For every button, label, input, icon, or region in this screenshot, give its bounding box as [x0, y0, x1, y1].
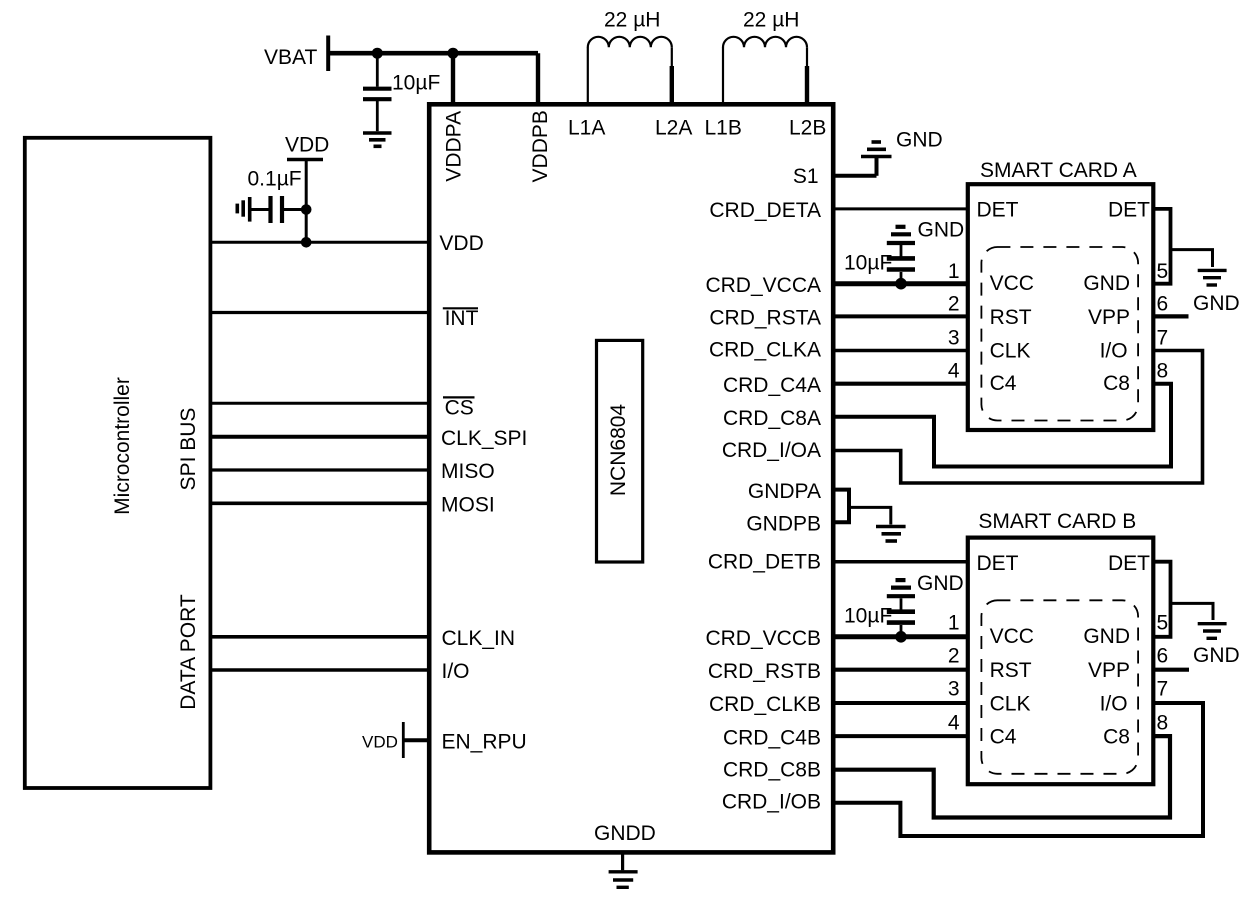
- svg-text:6: 6: [1157, 292, 1169, 315]
- svg-text:CRD_C4B: CRD_C4B: [723, 726, 821, 749]
- svg-text:C8: C8: [1103, 726, 1130, 749]
- svg-text:GND: GND: [1193, 292, 1240, 315]
- svg-text:CRD_VCCB: CRD_VCCB: [705, 627, 821, 650]
- svg-text:GND: GND: [917, 572, 964, 595]
- svg-text:CRD_CLKB: CRD_CLKB: [709, 693, 821, 716]
- svg-text:GND: GND: [1193, 644, 1240, 667]
- svg-text:SPI BUS: SPI BUS: [177, 408, 200, 491]
- svg-text:CLK_SPI: CLK_SPI: [441, 427, 527, 450]
- svg-text:7: 7: [1157, 327, 1169, 350]
- svg-text:VPP: VPP: [1088, 306, 1130, 329]
- svg-text:GND: GND: [1083, 272, 1130, 295]
- svg-text:MISO: MISO: [441, 460, 495, 483]
- svg-text:CRD_C8B: CRD_C8B: [723, 759, 821, 782]
- svg-text:8: 8: [1157, 360, 1169, 383]
- svg-text:EN_RPU: EN_RPU: [442, 730, 527, 753]
- svg-text:L1B: L1B: [705, 117, 742, 140]
- svg-text:C4: C4: [990, 372, 1017, 395]
- svg-text:GND: GND: [1083, 625, 1130, 648]
- svg-text:L2A: L2A: [655, 117, 692, 140]
- svg-text:7: 7: [1157, 678, 1169, 701]
- svg-text:CS: CS: [445, 397, 474, 420]
- svg-text:CLK_IN: CLK_IN: [442, 627, 516, 650]
- svg-text:5: 5: [1157, 260, 1169, 283]
- svg-text:CRD_DETB: CRD_DETB: [708, 551, 821, 574]
- svg-text:CRD_C4A: CRD_C4A: [723, 374, 821, 397]
- svg-text:I/O: I/O: [1100, 339, 1128, 362]
- svg-text:2: 2: [948, 292, 960, 315]
- svg-text:10µF: 10µF: [392, 72, 440, 95]
- svg-text:1: 1: [948, 612, 960, 635]
- svg-text:10µF: 10µF: [844, 251, 892, 274]
- svg-text:GND: GND: [896, 128, 943, 151]
- svg-text:INT: INT: [445, 307, 479, 330]
- svg-text:DATA PORT: DATA PORT: [177, 594, 200, 710]
- svg-text:C4: C4: [990, 726, 1017, 749]
- svg-text:L1A: L1A: [568, 117, 605, 140]
- svg-text:DET: DET: [1108, 552, 1150, 575]
- svg-text:GND: GND: [918, 219, 965, 242]
- svg-text:VCC: VCC: [990, 625, 1034, 648]
- svg-text:VDDPA: VDDPA: [442, 111, 465, 182]
- svg-text:0.1µF: 0.1µF: [248, 168, 302, 191]
- svg-text:CLK: CLK: [990, 693, 1031, 716]
- svg-text:1: 1: [948, 260, 960, 283]
- svg-text:22 µH: 22 µH: [743, 9, 799, 32]
- svg-text:VDD: VDD: [439, 232, 483, 255]
- svg-text:VCC: VCC: [990, 272, 1034, 295]
- svg-text:CRD_VCCA: CRD_VCCA: [705, 274, 821, 297]
- svg-text:3: 3: [948, 327, 960, 350]
- svg-text:CRD_I/OA: CRD_I/OA: [722, 439, 821, 462]
- svg-text:CRD_DETA: CRD_DETA: [709, 199, 821, 222]
- svg-text:VBAT: VBAT: [264, 46, 317, 69]
- svg-text:22 µH: 22 µH: [604, 9, 660, 32]
- svg-text:CRD_C8A: CRD_C8A: [723, 407, 821, 430]
- svg-text:SMART CARD A: SMART CARD A: [980, 159, 1137, 182]
- svg-text:6: 6: [1157, 645, 1169, 668]
- svg-text:CRD_CLKA: CRD_CLKA: [709, 338, 821, 361]
- svg-text:DET: DET: [1108, 198, 1150, 221]
- svg-text:I/O: I/O: [442, 660, 470, 683]
- svg-text:GNDPB: GNDPB: [746, 513, 821, 536]
- svg-text:I/O: I/O: [1100, 693, 1128, 716]
- svg-text:4: 4: [948, 360, 960, 383]
- svg-text:2: 2: [948, 645, 960, 668]
- svg-text:CLK: CLK: [990, 339, 1031, 362]
- svg-text:DET: DET: [977, 198, 1019, 221]
- svg-text:L2B: L2B: [789, 117, 826, 140]
- svg-text:8: 8: [1157, 712, 1169, 735]
- svg-text:RST: RST: [990, 306, 1032, 329]
- svg-text:C8: C8: [1103, 372, 1130, 395]
- svg-text:VDDPB: VDDPB: [529, 110, 552, 182]
- svg-text:CRD_I/OB: CRD_I/OB: [722, 791, 821, 814]
- svg-text:GNDPA: GNDPA: [748, 480, 821, 503]
- svg-text:Microcontroller: Microcontroller: [111, 377, 134, 515]
- svg-text:3: 3: [948, 678, 960, 701]
- svg-text:VDD: VDD: [285, 134, 329, 157]
- svg-text:10µF: 10µF: [844, 605, 892, 628]
- svg-text:VDD: VDD: [362, 733, 398, 752]
- svg-text:S1: S1: [793, 165, 819, 188]
- svg-text:SMART CARD B: SMART CARD B: [978, 510, 1136, 533]
- svg-text:CRD_RSTB: CRD_RSTB: [708, 660, 821, 683]
- svg-text:VPP: VPP: [1088, 659, 1130, 682]
- svg-text:4: 4: [948, 712, 960, 735]
- svg-text:RST: RST: [990, 659, 1032, 682]
- svg-text:NCN6804: NCN6804: [607, 404, 630, 497]
- svg-text:5: 5: [1157, 612, 1169, 635]
- svg-text:GNDD: GNDD: [594, 822, 656, 845]
- svg-text:MOSI: MOSI: [441, 493, 495, 516]
- svg-text:CRD_RSTA: CRD_RSTA: [709, 307, 821, 330]
- svg-text:DET: DET: [977, 552, 1019, 575]
